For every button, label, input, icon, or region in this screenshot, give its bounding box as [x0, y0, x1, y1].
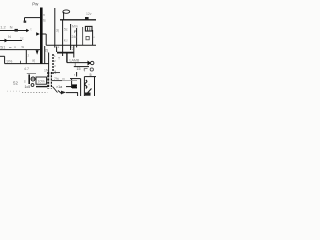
svg-text:1c5: 1c5 [25, 85, 31, 89]
svg-text:Mm: Mm [72, 25, 78, 29]
svg-text:P: P [74, 29, 77, 34]
svg-text:t: t [31, 28, 32, 32]
svg-text:s: s [24, 79, 26, 83]
svg-text:Pw: Pw [32, 1, 39, 6]
svg-text:15: 15 [77, 67, 81, 71]
svg-text:k.i: k.i [64, 38, 68, 42]
svg-text:10%: 10% [38, 80, 46, 84]
svg-text:+: + [88, 83, 90, 87]
svg-text:>1a: >1a [56, 85, 62, 89]
svg-text:1c: 1c [20, 37, 24, 41]
svg-text:a|: a| [32, 58, 35, 62]
svg-text:1.2: 1.2 [0, 25, 6, 30]
svg-text:5: 5 [90, 73, 92, 77]
svg-text:2: 2 [72, 47, 74, 51]
svg-text:n: n [43, 13, 45, 17]
svg-text:z: z [28, 53, 30, 57]
svg-text:ts: ts [43, 19, 46, 23]
svg-text:5|1: 5|1 [0, 45, 5, 49]
svg-text:N: N [8, 34, 11, 39]
svg-text:3|: 3| [56, 29, 59, 33]
svg-text:5c: 5c [64, 27, 68, 31]
svg-text:12v: 12v [86, 12, 92, 16]
svg-text:2|: 2| [45, 49, 48, 53]
svg-text:24c: 24c [72, 35, 78, 39]
svg-text:N: N [10, 24, 13, 29]
svg-text:T: T [58, 57, 60, 61]
svg-text:4.7: 4.7 [24, 67, 29, 71]
svg-text:1N: 1N [44, 69, 49, 73]
svg-text:52: 52 [13, 81, 18, 86]
svg-text:1: 1 [58, 45, 60, 49]
svg-text:9%: 9% [7, 58, 13, 63]
svg-text:LAMB: LAMB [70, 59, 80, 63]
